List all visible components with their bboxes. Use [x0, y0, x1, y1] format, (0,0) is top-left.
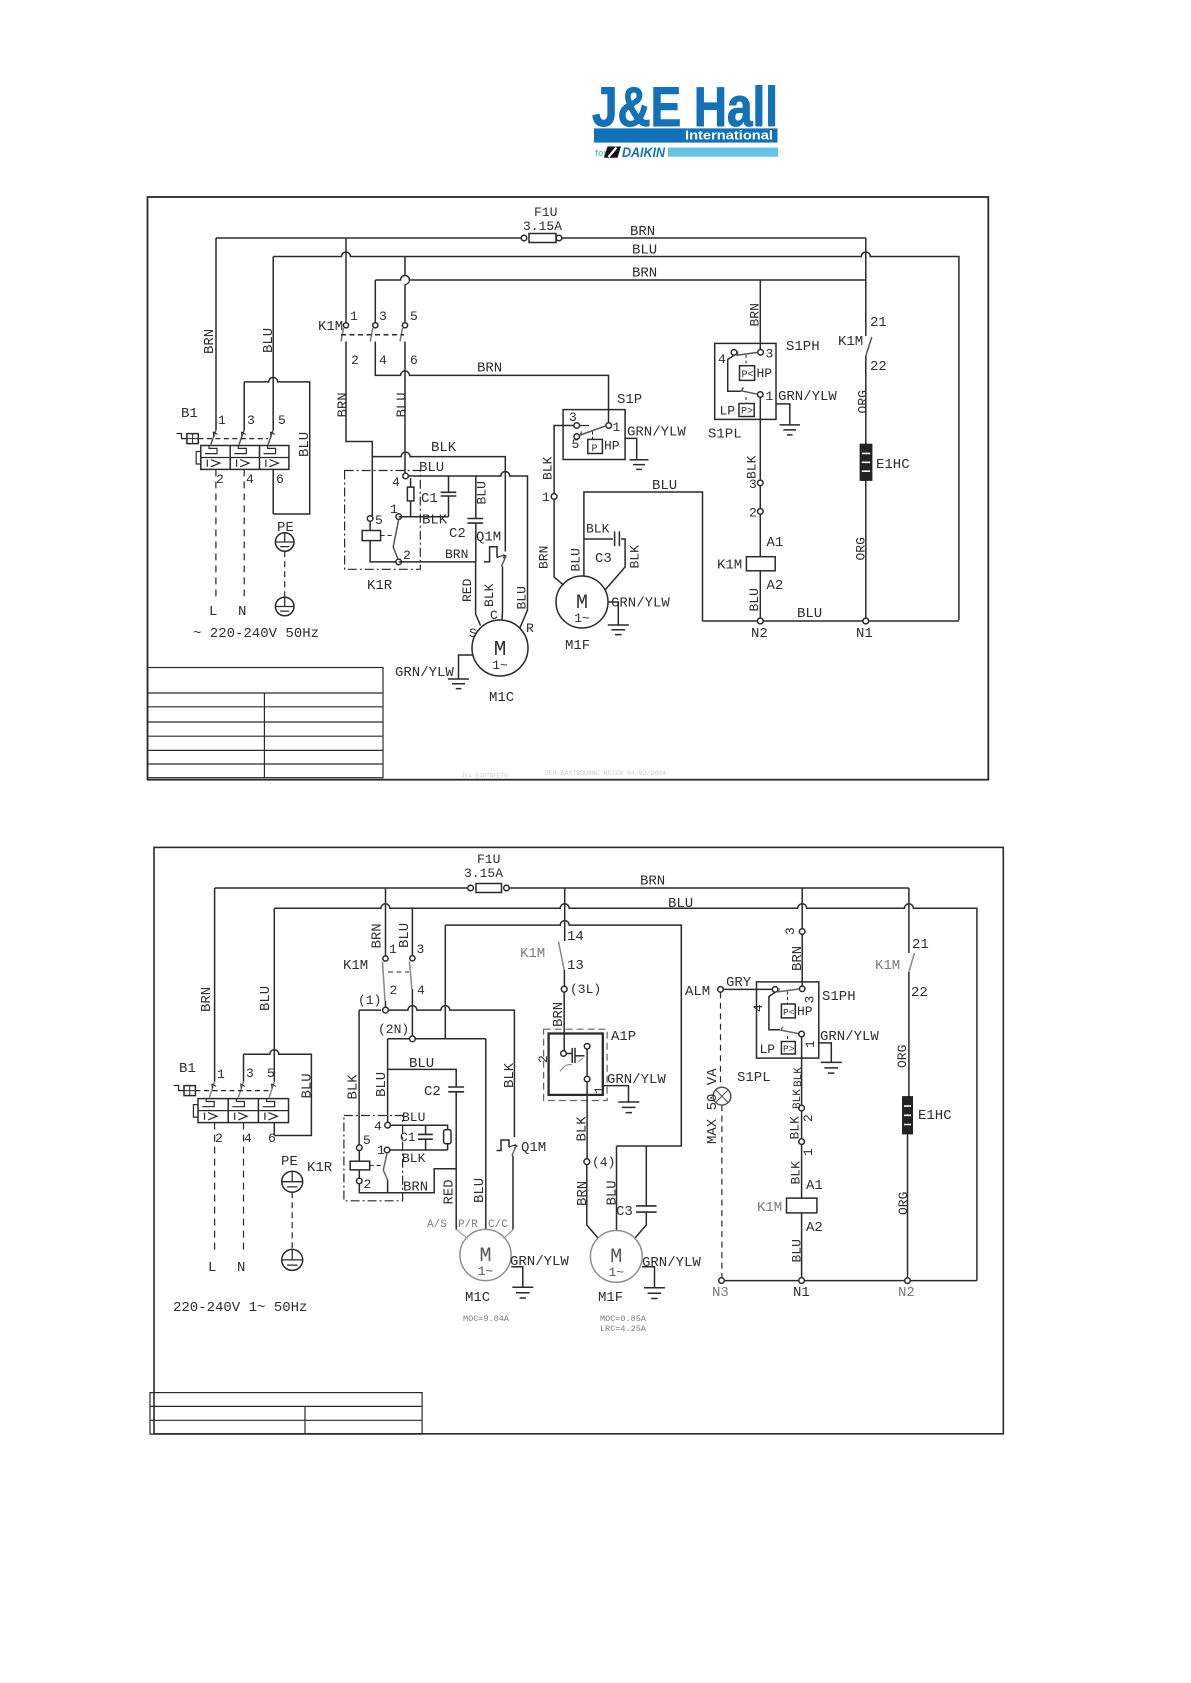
- svg-text:5: 5: [375, 513, 383, 528]
- connector ALM: [718, 987, 724, 993]
- svg-text:BLK: BLK: [575, 1116, 591, 1142]
- svg-text:3: 3: [766, 347, 774, 362]
- svg-text:GRN/YLW: GRN/YLW: [510, 1254, 569, 1270]
- svg-text:4: 4: [718, 352, 726, 367]
- svg-text:BLU: BLU: [402, 1110, 425, 1125]
- svg-text:(3L): (3L): [570, 982, 601, 997]
- svg-text:BLK: BLK: [788, 1116, 803, 1140]
- svg-text:BRN: BRN: [199, 987, 215, 1012]
- svg-text:(1): (1): [358, 993, 381, 1008]
- ground M1F: [642, 1267, 665, 1299]
- svg-text:N2: N2: [751, 626, 768, 642]
- pressure switch S1PH / S1PL: [757, 982, 819, 1105]
- wire BLK S1P 3 to node 1 to M1F: [554, 426, 574, 586]
- wire L1 BRN top rail: [216, 237, 866, 239]
- svg-text:M1F: M1F: [598, 1290, 623, 1306]
- wire BLU loop pole6 to pole3: [244, 1050, 312, 1136]
- wire BLK S1PL to K1M coil: [758, 480, 764, 557]
- motor M1F: [590, 1231, 642, 1283]
- svg-text:A2: A2: [806, 1220, 823, 1236]
- wire riser to fan rail: [444, 925, 446, 1039]
- svg-text:BRN: BRN: [551, 1002, 567, 1027]
- svg-text:GRN/YLW: GRN/YLW: [778, 389, 837, 405]
- svg-text:International: International: [685, 129, 773, 143]
- svg-text:N1: N1: [856, 626, 873, 642]
- K1R relay coil: [350, 1161, 370, 1170]
- svg-text:(2N): (2N): [378, 1022, 409, 1037]
- svg-text:4: 4: [246, 472, 254, 487]
- svg-text:1: 1: [377, 1143, 385, 1158]
- svg-text:BLU: BLU: [747, 588, 762, 611]
- svg-text:1: 1: [390, 502, 398, 517]
- svg-text:BRN: BRN: [575, 1181, 591, 1206]
- wire BLU fan rail to M1F: [616, 1146, 618, 1230]
- svg-text:1: 1: [801, 1148, 816, 1156]
- svg-text:PE: PE: [281, 1154, 298, 1170]
- wire N BLU rail: [273, 252, 959, 620]
- svg-text:3: 3: [417, 942, 425, 957]
- wire BLU drop to B1 pole 5: [272, 257, 274, 431]
- svg-text:S1PL: S1PL: [737, 1070, 771, 1086]
- wire L1 BRN top rail: [215, 887, 909, 889]
- svg-text:2: 2: [364, 1177, 372, 1192]
- svg-text:22: 22: [870, 359, 887, 375]
- wire BLK S1PL chain to K1M coil: [799, 1105, 805, 1198]
- svg-text:3: 3: [749, 477, 757, 492]
- svg-text:M1F: M1F: [565, 638, 590, 654]
- svg-text:1: 1: [389, 942, 397, 957]
- node N2: [757, 618, 763, 624]
- svg-text:220-240V 1~ 50Hz: 220-240V 1~ 50Hz: [173, 1300, 307, 1316]
- svg-text:1~: 1~: [492, 658, 508, 673]
- node N1: [799, 1278, 805, 1284]
- svg-text:BLU: BLU: [419, 460, 444, 476]
- contactor coil K1M: [746, 557, 775, 571]
- ground S1PL: [776, 404, 800, 435]
- wire BRN K1R 2 to RED junction: [359, 1169, 456, 1193]
- svg-text:(4): (4): [592, 1155, 615, 1170]
- connector (1): [383, 1007, 389, 1013]
- K1M aux contact 14-13: [559, 942, 565, 971]
- svg-text:A1P: A1P: [611, 1029, 636, 1045]
- svg-text:RED: RED: [460, 578, 475, 602]
- svg-text:GRN/YLW: GRN/YLW: [627, 425, 686, 441]
- svg-text:C/C: C/C: [488, 1219, 508, 1231]
- wire BLU coil to N2: [759, 571, 761, 618]
- svg-text:BRN: BRN: [403, 1180, 428, 1196]
- wire ORG E1HC to N2: [907, 1134, 909, 1278]
- svg-text:B1: B1: [179, 1061, 196, 1077]
- svg-text:M1C: M1C: [465, 1290, 490, 1306]
- svg-text:P<: P<: [783, 1007, 795, 1018]
- svg-text:BLK: BLK: [346, 1074, 362, 1100]
- svg-text:Q1M: Q1M: [521, 1140, 546, 1156]
- svg-text:2: 2: [351, 353, 359, 368]
- svg-text:1~: 1~: [574, 611, 590, 626]
- wire BRN rail from K1M pole 3: [375, 276, 866, 281]
- B1 pole internals: [201, 446, 289, 467]
- svg-text:2: 2: [390, 983, 398, 998]
- ground M1C: [448, 655, 473, 689]
- wire BLK A1P to (4): [586, 1082, 588, 1159]
- wire BRN from K1R 2 to M1C S: [399, 562, 481, 626]
- alarm lamp circuit dashed: [721, 992, 722, 1277]
- svg-text:5: 5: [267, 1066, 275, 1081]
- K1R pin 2: [357, 1178, 363, 1184]
- relay K1R enclosure: [344, 1116, 403, 1201]
- svg-text:K1M: K1M: [343, 958, 368, 974]
- wire BLU into M1F: [583, 539, 585, 576]
- svg-text:5: 5: [363, 1133, 371, 1148]
- svg-text:BRN: BRN: [370, 923, 386, 948]
- svg-text:3.15A: 3.15A: [523, 219, 562, 234]
- svg-text:1: 1: [542, 490, 550, 505]
- svg-text:BLU: BLU: [668, 896, 693, 912]
- svg-text:BLK: BLK: [793, 1067, 805, 1087]
- svg-text:GRN/YLW: GRN/YLW: [820, 1029, 879, 1045]
- K1R relay coil: [362, 531, 380, 541]
- svg-text:C3: C3: [595, 551, 612, 567]
- svg-text:A1: A1: [767, 535, 784, 551]
- node N1: [863, 618, 869, 624]
- title block top: [148, 668, 383, 778]
- svg-text:5: 5: [572, 437, 580, 452]
- svg-text:BRN: BRN: [336, 392, 352, 417]
- svg-text:PE: PE: [277, 520, 294, 536]
- wire BLK branch to Q1M: [372, 452, 505, 551]
- svg-text:L: L: [209, 604, 217, 620]
- svg-text:S1PH: S1PH: [822, 989, 856, 1005]
- svg-text:LP: LP: [720, 404, 736, 419]
- relay K1R enclosure: [345, 471, 421, 570]
- diagram border frame bottom: [154, 847, 1003, 1433]
- svg-text:4: 4: [417, 983, 425, 998]
- svg-text:BLK: BLK: [541, 456, 556, 480]
- ground A1P: [603, 1086, 640, 1113]
- capacitor C3: [635, 1146, 657, 1238]
- wire fan rail: [445, 921, 681, 1146]
- svg-text:HP: HP: [757, 366, 773, 381]
- wire (1) from K1M 2 to Q1M and K1R: [359, 1006, 514, 1137]
- svg-text:2: 2: [749, 506, 757, 521]
- connector (2N): [410, 1036, 416, 1042]
- wire pin1 to C1: [390, 1149, 448, 1151]
- node N3: [719, 1278, 725, 1284]
- svg-text:C3: C3: [616, 1204, 633, 1220]
- svg-text:1: 1: [350, 309, 358, 324]
- pressure switch S1PH / S1PL: [715, 343, 776, 480]
- svg-text:BLU: BLU: [790, 1239, 805, 1262]
- capacitor C3: [584, 531, 625, 590]
- svg-text:E1HC: E1HC: [918, 1108, 952, 1124]
- svg-text:2: 2: [216, 472, 224, 487]
- wire BLU coil to N1: [801, 1213, 803, 1278]
- svg-text:3: 3: [379, 309, 387, 324]
- svg-text:ORG: ORG: [895, 1045, 910, 1068]
- contactor K1M main contacts: [383, 888, 416, 1036]
- svg-text:BLU: BLU: [297, 432, 313, 457]
- connector 3: [799, 929, 805, 935]
- svg-text:BLU: BLU: [472, 1178, 488, 1203]
- svg-text:5: 5: [278, 413, 286, 428]
- title block bottom: [150, 1393, 422, 1435]
- contactor coil K1M: [787, 1198, 817, 1213]
- earth PE: [282, 1171, 303, 1270]
- svg-text:3: 3: [247, 413, 255, 428]
- svg-text:1: 1: [766, 389, 774, 404]
- svg-text:P>: P>: [783, 1044, 795, 1055]
- svg-text:6: 6: [410, 353, 418, 368]
- svg-text:R: R: [526, 621, 534, 636]
- svg-text:ORG: ORG: [896, 1192, 911, 1215]
- svg-text:BLU: BLU: [569, 548, 584, 571]
- svg-text:K1M: K1M: [757, 1200, 782, 1216]
- svg-text:MAX 50 VA: MAX 50 VA: [705, 1068, 721, 1144]
- wire BRN to S1PH 3: [801, 888, 803, 986]
- diagram border frame top: [148, 197, 989, 780]
- svg-text:BLU: BLU: [395, 392, 411, 417]
- motor M1C: [472, 620, 528, 676]
- wire BLU neutral bus: [703, 620, 959, 622]
- svg-text:N: N: [237, 1260, 245, 1276]
- svg-text:4: 4: [374, 1119, 382, 1134]
- node N2: [905, 1278, 911, 1284]
- svg-text:1: 1: [592, 1086, 607, 1094]
- K1R switch blade: [383, 1153, 387, 1180]
- svg-text:HP: HP: [604, 439, 620, 454]
- connector (4): [584, 1159, 590, 1165]
- ground M1C: [511, 1267, 533, 1298]
- svg-text:MOC=9.04A: MOC=9.04A: [463, 1314, 510, 1324]
- svg-text:BLK: BLK: [792, 1089, 804, 1109]
- K1R switch blade 1-2: [393, 519, 399, 559]
- svg-text:BLU: BLU: [797, 606, 822, 622]
- wire N BLU rail: [274, 904, 977, 1281]
- svg-text:1~: 1~: [478, 1264, 494, 1279]
- svg-text:K1M: K1M: [318, 319, 343, 335]
- pressure switch S1P: [563, 410, 625, 460]
- svg-text:3: 3: [569, 410, 577, 425]
- connector (3L): [561, 986, 567, 992]
- svg-text:BRN: BRN: [790, 946, 806, 971]
- svg-text:BLK: BLK: [745, 455, 760, 479]
- svg-text:Q1M: Q1M: [476, 530, 501, 546]
- svg-text:A2: A2: [767, 578, 784, 594]
- K1R pin 5: [367, 516, 373, 522]
- fuse F1U: [521, 234, 562, 243]
- logo J&E Hall International for DAIKIN: [592, 75, 778, 160]
- svg-text:BLU: BLU: [515, 586, 530, 609]
- svg-text:BRN: BRN: [640, 874, 665, 890]
- wire BLU from K1R 4 to M1C R: [406, 472, 528, 629]
- capacitor C2: [448, 1087, 464, 1169]
- svg-text:DAIKIN: DAIKIN: [622, 144, 666, 160]
- svg-text:P/R: P/R: [458, 1219, 478, 1231]
- svg-text:4: 4: [392, 475, 400, 490]
- motor M1C: [456, 1229, 513, 1280]
- ground M1F: [608, 602, 629, 635]
- svg-text:BLK: BLK: [586, 522, 610, 537]
- svg-text:N2: N2: [898, 1285, 915, 1301]
- svg-text:2: 2: [215, 1131, 223, 1146]
- svg-text:14: 14: [567, 929, 584, 945]
- svg-text:K1R: K1R: [307, 1160, 333, 1176]
- svg-text:GRN/YLW: GRN/YLW: [642, 1255, 701, 1271]
- overload protector Q1M: [497, 1140, 518, 1230]
- svg-text:JE4 E4GTNEETG: JE4 E4GTNEETG: [461, 773, 508, 780]
- svg-text:5: 5: [410, 309, 418, 324]
- svg-text:A1: A1: [806, 1178, 823, 1194]
- svg-text:BLK: BLK: [402, 1151, 426, 1166]
- svg-text:4: 4: [244, 1131, 252, 1146]
- K1R pin 1: [384, 1147, 390, 1153]
- svg-text:BLK: BLK: [789, 1161, 804, 1185]
- svg-text:BLU: BLU: [605, 1180, 621, 1205]
- wire ALM GRY to S1PH 4: [723, 988, 772, 990]
- wire BLU branch to C2: [388, 1069, 457, 1087]
- svg-text:1: 1: [218, 413, 226, 428]
- K1R pin 5: [357, 1145, 363, 1151]
- svg-text:BLU: BLU: [397, 923, 413, 948]
- svg-text:BRN: BRN: [748, 303, 763, 326]
- wire BRN to K1M aux 21: [908, 888, 910, 953]
- K1R pin 4: [385, 1122, 391, 1128]
- K1R pin 4: [403, 473, 409, 479]
- svg-text:K1M: K1M: [520, 946, 545, 962]
- svg-text:BLU: BLU: [374, 1072, 390, 1097]
- svg-text:BLK: BLK: [502, 1062, 518, 1088]
- svg-text:MOC=0.85A: MOC=0.85A: [600, 1314, 647, 1324]
- wire BLU loop pole6 to pole3: [244, 377, 310, 514]
- svg-text:K1M: K1M: [717, 558, 742, 574]
- svg-text:1: 1: [613, 420, 621, 435]
- svg-text:BRN: BRN: [445, 547, 468, 562]
- wire BRN to K1M aux 21: [865, 238, 867, 336]
- svg-text:P: P: [592, 444, 598, 455]
- svg-text:ORG: ORG: [856, 390, 871, 413]
- svg-text:3: 3: [803, 996, 818, 1004]
- svg-text:1: 1: [217, 1067, 225, 1082]
- svg-text:6: 6: [276, 472, 284, 487]
- svg-text:2: 2: [536, 1055, 551, 1063]
- svg-text:F1U: F1U: [477, 852, 500, 867]
- svg-text:L: L: [208, 1260, 216, 1276]
- svg-text:LRC=4.25A: LRC=4.25A: [600, 1324, 647, 1334]
- svg-text:P>: P>: [741, 407, 753, 418]
- svg-text:JEH EASTBOURNE HSIEN 04/02/200: JEH EASTBOURNE HSIEN 04/02/2004: [545, 770, 666, 777]
- contactor K1M main contacts: [341, 238, 410, 516]
- K1M aux contact 21-22: [866, 337, 872, 356]
- capacitor C2: [467, 476, 483, 562]
- neutral bus N3 N1 N2: [724, 1280, 977, 1282]
- svg-text:K1R: K1R: [367, 578, 393, 594]
- wire BRN drop to B1 pole 1: [214, 888, 216, 1082]
- svg-text:B1: B1: [181, 406, 198, 422]
- wire BRN from K1M 4 to S1P 1: [375, 342, 608, 423]
- svg-text:N1: N1: [793, 1285, 810, 1301]
- fuse F1U: [468, 884, 510, 893]
- svg-text:GRN/YLW: GRN/YLW: [395, 665, 454, 681]
- motor M1F: [556, 576, 608, 628]
- svg-text:S1P: S1P: [617, 392, 642, 408]
- capacitor C1: [399, 476, 457, 517]
- svg-text:M1C: M1C: [489, 690, 514, 706]
- svg-text:BLU: BLU: [409, 1056, 434, 1072]
- svg-text:3: 3: [783, 927, 798, 935]
- svg-text:S1PH: S1PH: [786, 339, 820, 355]
- svg-text:BLK: BLK: [431, 440, 457, 456]
- svg-text:HP: HP: [797, 1004, 813, 1019]
- svg-text:F1U: F1U: [534, 205, 557, 220]
- svg-text:BLU: BLU: [261, 328, 277, 353]
- svg-text:4: 4: [751, 1004, 766, 1012]
- svg-text:LP: LP: [760, 1042, 776, 1057]
- svg-text:BRN: BRN: [630, 224, 655, 240]
- svg-text:N: N: [238, 604, 246, 620]
- svg-text:ORG: ORG: [854, 537, 869, 560]
- svg-text:BLK: BLK: [628, 545, 643, 569]
- svg-text:K1M: K1M: [875, 958, 900, 974]
- thermostat module A1P: [544, 1029, 608, 1100]
- wire to K1M aux 14: [564, 888, 566, 941]
- K1M aux contact 21-22: [909, 953, 915, 972]
- svg-text:GRY: GRY: [726, 975, 752, 991]
- svg-text:21: 21: [870, 315, 887, 331]
- supply dashed leads L N: [216, 469, 244, 600]
- wire BRN drop to B1 pole 1: [215, 238, 217, 430]
- svg-text:22: 22: [911, 985, 928, 1001]
- svg-text:A/S: A/S: [427, 1219, 447, 1231]
- wire BRN to M1F: [587, 1165, 598, 1238]
- svg-text:21: 21: [912, 937, 929, 953]
- svg-text:3: 3: [246, 1066, 254, 1081]
- svg-text:N3: N3: [712, 1285, 729, 1301]
- svg-text:BRN: BRN: [632, 266, 657, 282]
- circuit breaker B1: [174, 1082, 289, 1123]
- svg-text:GRN/YLW: GRN/YLW: [611, 596, 670, 612]
- svg-text:BLK: BLK: [482, 583, 497, 607]
- earth PE: [275, 533, 294, 616]
- svg-text:C: C: [490, 608, 498, 623]
- wire (2N) from K1M 4: [388, 1039, 486, 1230]
- svg-text:S: S: [469, 626, 477, 641]
- svg-text:BRN: BRN: [202, 329, 218, 354]
- svg-text:4: 4: [379, 353, 387, 368]
- svg-text:K1M: K1M: [838, 334, 863, 350]
- svg-text:BLK: BLK: [422, 513, 448, 529]
- svg-text:S1PL: S1PL: [708, 427, 742, 443]
- resistor in K1R: [444, 1130, 451, 1144]
- svg-text:BLU: BLU: [632, 243, 657, 259]
- svg-text:ALM: ALM: [685, 984, 710, 1000]
- K1R pin 1: [396, 514, 402, 520]
- svg-text:BLU: BLU: [475, 481, 490, 504]
- capacitor C1: [418, 1125, 433, 1150]
- svg-text:13: 13: [567, 958, 584, 974]
- svg-text:1~: 1~: [608, 1265, 624, 1280]
- heater E1HC: [860, 445, 871, 481]
- node 1 connector: [551, 494, 557, 500]
- svg-text:BLU: BLU: [258, 986, 274, 1011]
- wire RED to M1C A/S: [455, 1169, 457, 1230]
- svg-text:C2: C2: [424, 1084, 441, 1100]
- overload protector Q1M: [484, 547, 507, 620]
- svg-text:BRN: BRN: [537, 546, 552, 569]
- heater E1HC: [903, 1097, 912, 1134]
- svg-text:3.15A: 3.15A: [464, 866, 503, 881]
- K1R pin 2: [396, 559, 402, 565]
- svg-text:BLU: BLU: [300, 1073, 316, 1098]
